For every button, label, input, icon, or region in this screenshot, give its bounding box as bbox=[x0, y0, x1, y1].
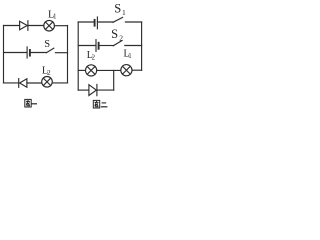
svg-text:2: 2 bbox=[119, 34, 123, 43]
svg-text:2: 2 bbox=[47, 69, 51, 77]
svg-text:1: 1 bbox=[53, 12, 57, 20]
svg-text:S: S bbox=[44, 39, 50, 50]
svg-text:2: 2 bbox=[92, 54, 96, 61]
svg-text:1: 1 bbox=[122, 8, 126, 17]
svg-text:S: S bbox=[111, 27, 118, 41]
svg-text:1: 1 bbox=[128, 53, 131, 60]
svg-text:S: S bbox=[114, 2, 121, 16]
